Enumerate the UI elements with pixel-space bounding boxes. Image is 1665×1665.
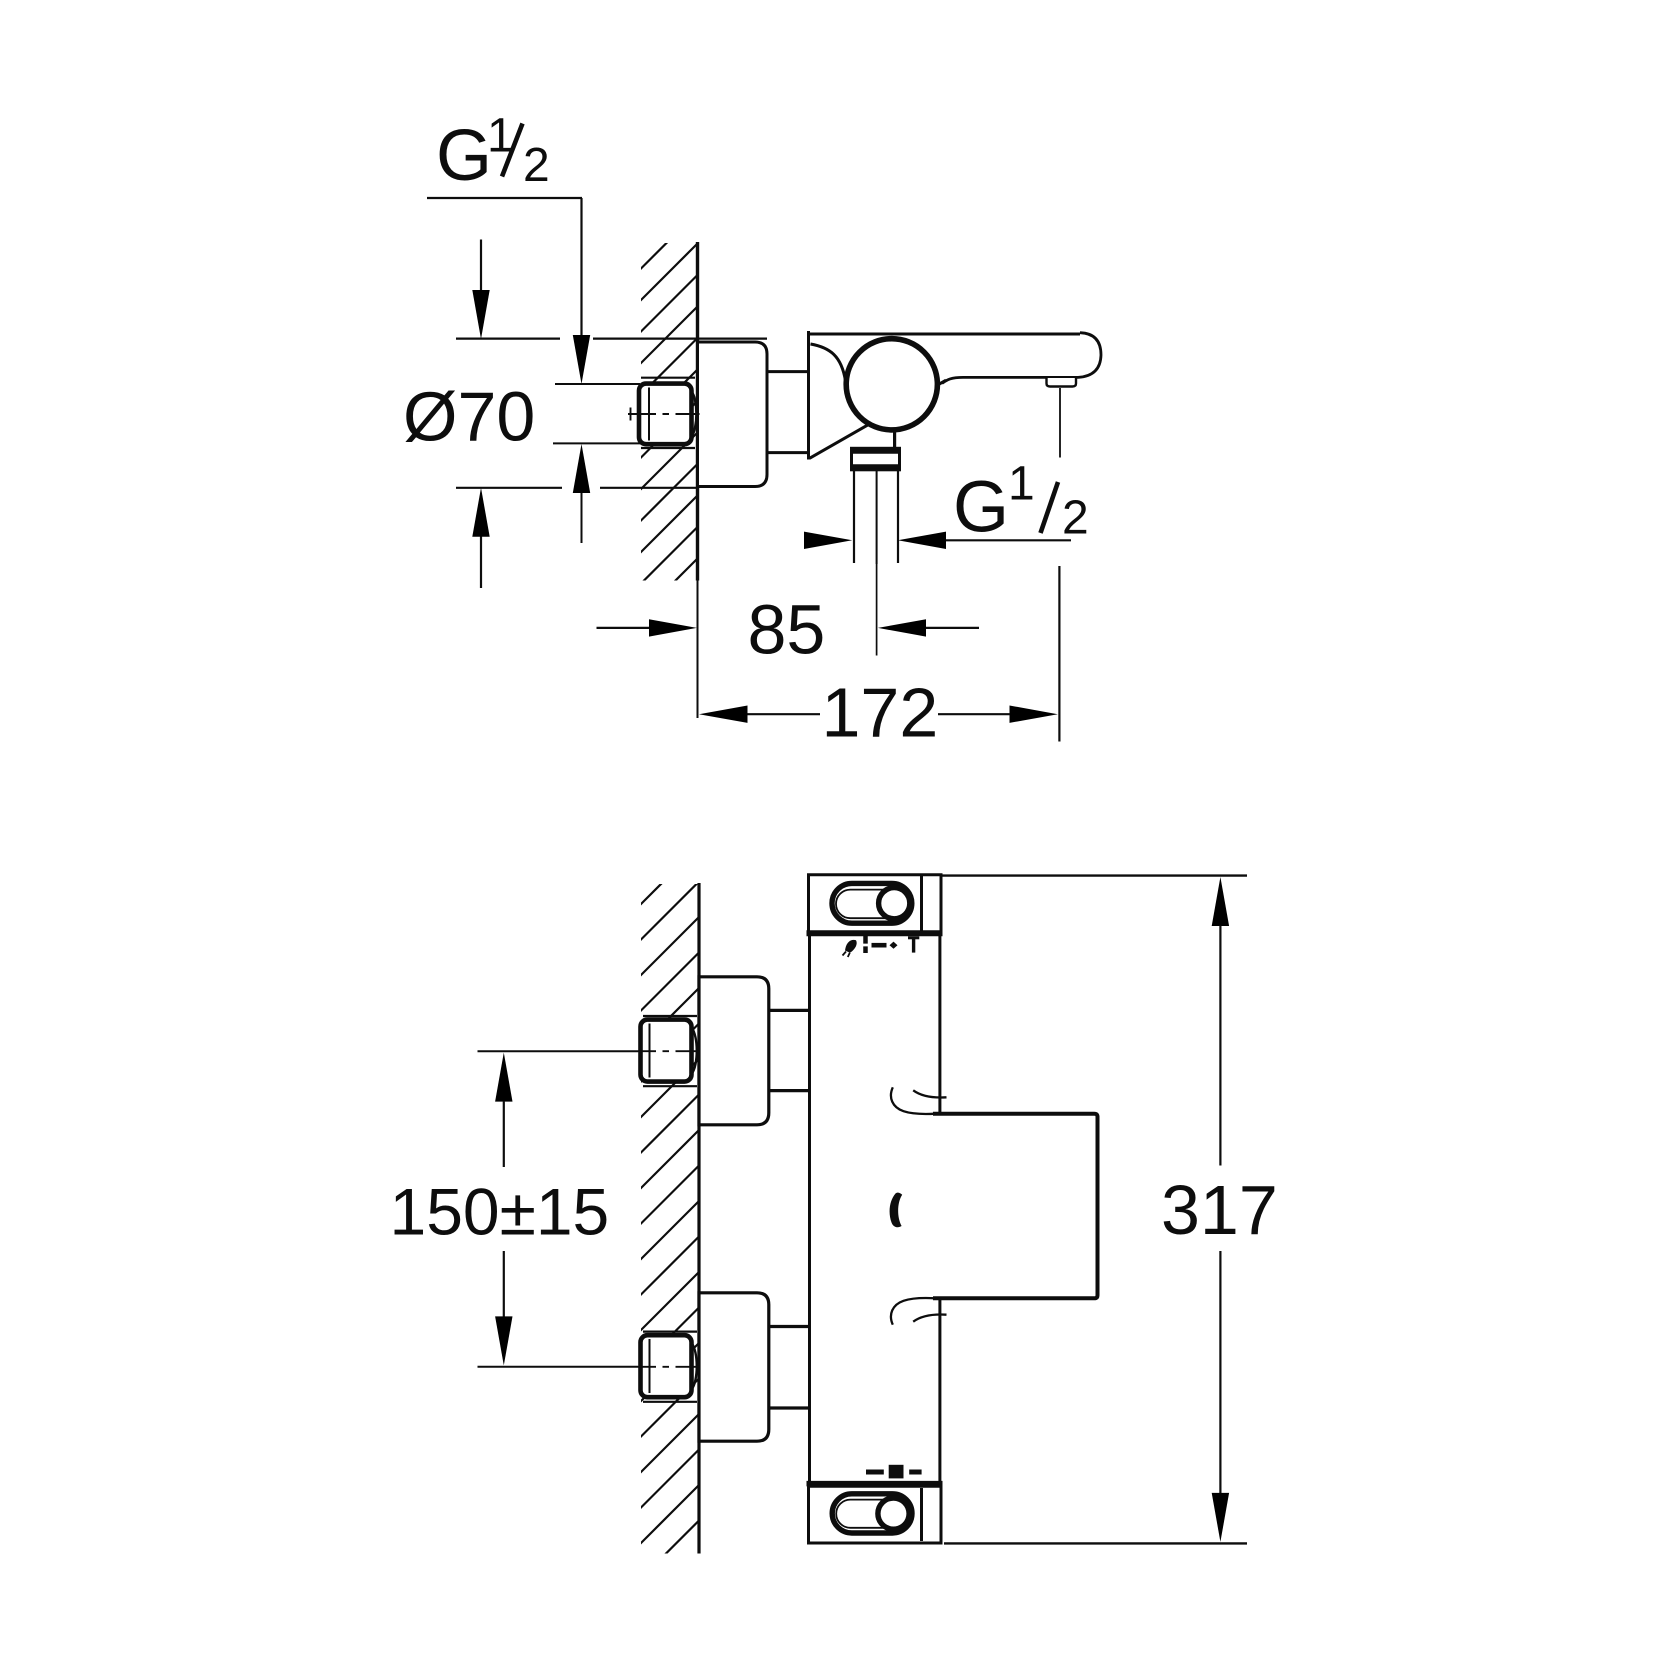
svg-text:2: 2	[523, 139, 550, 192]
svg-text:1: 1	[1008, 458, 1035, 511]
svg-text:G: G	[953, 468, 1009, 548]
svg-text:317: 317	[1161, 1171, 1278, 1249]
svg-text:150±15: 150±15	[390, 1175, 610, 1249]
svg-text:G: G	[436, 116, 492, 196]
svg-text:172: 172	[822, 674, 939, 752]
svg-text:2: 2	[1062, 492, 1089, 545]
svg-text:Ø70: Ø70	[403, 378, 535, 456]
svg-text:85: 85	[748, 591, 826, 669]
